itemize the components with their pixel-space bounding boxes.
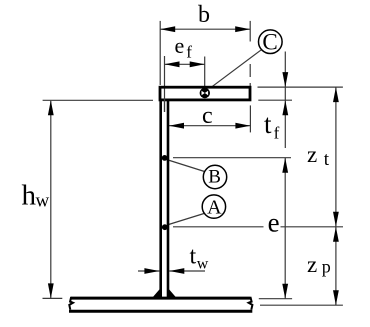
svg-text:c: c xyxy=(202,103,213,129)
h_w top extension line (flange bottom level) xyxy=(43,99,153,101)
z_p arrows xyxy=(333,227,339,242)
bottom plate bottom line xyxy=(69,310,252,313)
dimension z_t: dimension line xyxy=(335,87,337,227)
e_f arrows xyxy=(165,61,180,67)
leader line to B xyxy=(167,160,205,172)
bottom plate left break xyxy=(69,297,73,310)
svg-text:e: e xyxy=(268,207,280,237)
svg-text:z: z xyxy=(307,142,317,167)
weld fillet left xyxy=(152,289,160,298)
centroid symbol C xyxy=(200,88,210,98)
z_t arrows xyxy=(333,87,339,102)
svg-text:t: t xyxy=(264,109,272,139)
t_f bottom extension line (flange bottom) xyxy=(258,99,292,101)
dimension e: dimension line xyxy=(284,158,286,299)
dimension t_w: right line xyxy=(169,270,205,272)
e bottom extension line (plate top) xyxy=(259,298,292,300)
svg-text:t: t xyxy=(324,149,330,170)
svg-text:h: h xyxy=(22,180,37,212)
web left wall xyxy=(159,99,162,298)
dimension z_p: dimension line xyxy=(335,227,337,305)
b right extension line (dashed) xyxy=(249,21,251,42)
svg-text:B: B xyxy=(208,167,221,188)
svg-text:w: w xyxy=(36,190,50,211)
dimension c: dimension line xyxy=(169,125,250,127)
e arrows xyxy=(282,158,288,173)
svg-text:z: z xyxy=(307,252,317,277)
top flange xyxy=(160,87,250,100)
node B level line xyxy=(173,157,291,159)
c arrows xyxy=(169,123,184,129)
t_w arrows xyxy=(144,268,159,274)
t_f arrow stem xyxy=(284,52,286,149)
node A level line (left of e text) xyxy=(173,226,264,228)
t_f / z_t top extension line (flange top) xyxy=(258,86,343,88)
dimension b: dimension line xyxy=(43,21,344,305)
z_p bottom extension line xyxy=(260,304,343,306)
circle label C xyxy=(259,30,283,54)
node A level line (right of e text) xyxy=(281,226,344,228)
circle label B xyxy=(203,165,226,188)
c right extension line xyxy=(249,105,251,132)
bottom plate top line xyxy=(71,297,251,300)
svg-text:f: f xyxy=(186,42,192,61)
h_w bottom extension line (plate top level) xyxy=(43,297,63,299)
arrowheads xyxy=(48,26,339,305)
leader line to C xyxy=(208,50,261,90)
web right wall xyxy=(167,99,170,298)
node B dot xyxy=(162,155,168,161)
t_f arrows xyxy=(282,72,288,87)
svg-text:f: f xyxy=(274,124,280,143)
svg-text:e: e xyxy=(175,33,185,58)
svg-text:t: t xyxy=(190,244,197,270)
h_w arrows xyxy=(48,100,54,115)
bottom plate right break xyxy=(249,297,253,310)
e_f extension inside web (redrawn over flange) xyxy=(164,89,166,113)
svg-text:C: C xyxy=(262,30,277,55)
circle label A xyxy=(202,195,225,218)
e_f left extension line xyxy=(164,56,166,112)
svg-text:p: p xyxy=(322,257,331,277)
dimension t_w: left line xyxy=(138,270,159,272)
b left extension line xyxy=(159,21,161,85)
dimension e_f: dimension line xyxy=(165,63,205,65)
b arrows xyxy=(160,26,175,32)
e_f right extension line xyxy=(204,57,206,88)
dimension h_w: dimension line xyxy=(50,101,52,298)
svg-text:A: A xyxy=(207,196,222,218)
svg-text:b: b xyxy=(198,2,210,28)
node A dot xyxy=(162,224,168,230)
weld fillet right xyxy=(169,289,177,298)
leader line to A xyxy=(167,214,204,226)
svg-text:w: w xyxy=(197,256,209,273)
